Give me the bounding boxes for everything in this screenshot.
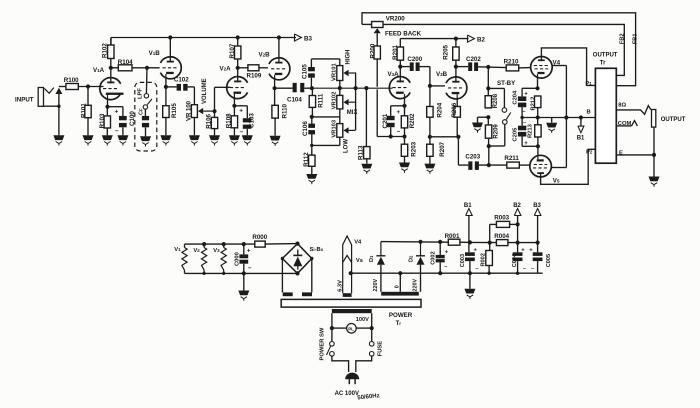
wire jack sleeve lead bbox=[653, 127, 655, 155]
capacitor C205 bbox=[521, 118, 523, 126]
svg-text:8Ω: 8Ω bbox=[618, 103, 626, 109]
svg-text:220V: 220V bbox=[413, 279, 419, 292]
wire low row bbox=[312, 144, 340, 146]
wire C102 to VR100 bbox=[188, 86, 195, 88]
resistor R108 bbox=[233, 106, 235, 116]
resistor R206 bbox=[454, 107, 460, 118]
ground R113 bbox=[361, 164, 372, 169]
svg-text:R213: R213 bbox=[528, 123, 534, 138]
svg-text:R000: R000 bbox=[252, 234, 267, 241]
node R002 top bbox=[488, 241, 492, 245]
wire R205 to rail bbox=[455, 39, 457, 47]
wire C204 bottom bbox=[521, 107, 523, 117]
resistor R201 bbox=[399, 39, 401, 47]
tube V3A bbox=[389, 77, 410, 99]
wire V1A cathode bbox=[107, 99, 109, 107]
tube V5 bbox=[530, 155, 552, 177]
potentiometer VR101 bbox=[337, 66, 343, 81]
wire node A to C105 bbox=[310, 78, 312, 89]
ground CF bbox=[140, 136, 151, 141]
wire C004 bottom bbox=[517, 261, 519, 273]
tube V3B bbox=[446, 77, 467, 99]
potentiometer VR200 bbox=[372, 22, 383, 28]
svg-text:PL: PL bbox=[348, 327, 354, 332]
svg-text:HIGH: HIGH bbox=[345, 50, 351, 65]
input jack J1 bbox=[38, 88, 43, 107]
node PL left bbox=[330, 326, 334, 330]
svg-text:R202: R202 bbox=[409, 113, 416, 128]
wire jack tip to R100 bbox=[59, 86, 66, 88]
power transformer core bbox=[281, 299, 421, 307]
svg-text:C201: C201 bbox=[382, 113, 389, 128]
resistor R109 bbox=[248, 65, 259, 71]
resistor R104 bbox=[118, 65, 132, 71]
wire C005 bottom bbox=[537, 261, 539, 273]
wire cathode to C102 bbox=[166, 86, 177, 88]
svg-text:V4: V4 bbox=[354, 240, 362, 246]
node B1 bottom bbox=[468, 240, 472, 244]
winding 6.3V left bar bbox=[283, 292, 293, 296]
svg-text:C002: C002 bbox=[430, 251, 436, 264]
svg-text:VR101: VR101 bbox=[332, 62, 338, 81]
svg-text:R206: R206 bbox=[451, 102, 458, 117]
resistor R101 bbox=[85, 105, 91, 117]
wire R105 to ground bbox=[165, 118, 167, 136]
svg-text:C104: C104 bbox=[287, 96, 302, 103]
svg-text:–: – bbox=[531, 266, 534, 272]
wire B3 rail bbox=[111, 37, 296, 39]
wire 8ohm tap bbox=[616, 106, 651, 115]
node LPF tap bbox=[145, 66, 149, 70]
svg-text:–: – bbox=[115, 127, 119, 134]
resistor R210 bbox=[506, 65, 519, 71]
resistor R212 bbox=[535, 96, 541, 108]
svg-text:–: – bbox=[523, 266, 526, 272]
svg-text:MIX: MIX bbox=[347, 110, 358, 116]
wire COM tap bbox=[616, 125, 631, 127]
resistor R004 bbox=[496, 240, 508, 246]
wire to C202 bbox=[456, 66, 468, 68]
resistor R200 bbox=[374, 46, 380, 59]
node R107 on B3 rail bbox=[236, 35, 240, 39]
node C203 junction bbox=[487, 163, 491, 167]
wire V4 cathode bbox=[537, 78, 539, 88]
resistor R207 bbox=[429, 137, 431, 144]
wire R004 to B3 bbox=[508, 242, 538, 244]
svg-text:+: + bbox=[397, 109, 401, 116]
switch ST-BY lever bbox=[506, 112, 511, 119]
svg-text:Tr: Tr bbox=[600, 61, 606, 67]
resistor R105 bbox=[165, 87, 167, 106]
resistor R204 bbox=[427, 107, 433, 118]
wire bridge AC left bbox=[281, 259, 283, 293]
node VR101 bottom bbox=[338, 86, 342, 90]
wire C000 bottom bbox=[243, 264, 245, 274]
svg-text:INPUT: INPUT bbox=[15, 97, 34, 104]
switch ST-BY upper contact bbox=[502, 108, 507, 113]
wire V3B plate bbox=[455, 60, 457, 77]
wire R001 to B1 bbox=[460, 241, 470, 243]
svg-text:–: – bbox=[240, 128, 244, 135]
wire R000 to bridge bbox=[265, 243, 297, 246]
svg-text:LOW: LOW bbox=[343, 139, 349, 153]
svg-text:B: B bbox=[587, 109, 591, 115]
wire R108 to ground bbox=[233, 128, 235, 136]
wire R209 bottom bbox=[488, 138, 490, 146]
wire C202 to R210 bbox=[478, 66, 506, 69]
wire wiper to V2A grid bbox=[214, 87, 216, 111]
switch POWER upper contact bbox=[330, 342, 335, 347]
svg-text:V5: V5 bbox=[553, 177, 560, 184]
wire V5 plate to P2 bbox=[541, 149, 596, 184]
potentiometer VR100 bbox=[191, 105, 197, 118]
svg-text:LPF: LPF bbox=[138, 88, 144, 99]
wire C103 to ground bbox=[246, 129, 248, 136]
svg-text:R004: R004 bbox=[494, 233, 509, 240]
wire C203 to R211 bbox=[479, 164, 507, 166]
wire R204 bottom bbox=[429, 117, 431, 137]
wire R102 to B3 rail bbox=[110, 38, 112, 46]
svg-text:R208: R208 bbox=[493, 93, 499, 108]
output jack bbox=[652, 110, 656, 128]
wire V2A plate bbox=[237, 59, 239, 77]
ground R105 bbox=[160, 135, 171, 140]
switch ST-BY lower contact bbox=[503, 120, 508, 125]
node B2 R003 bbox=[516, 222, 520, 226]
switch LPF lower contact bbox=[143, 105, 147, 109]
svg-text:OUTPUT: OUTPUT bbox=[661, 117, 686, 123]
node V2 heater bottom bbox=[203, 272, 206, 275]
svg-text:R106: R106 bbox=[206, 113, 213, 128]
capacitor C002 bbox=[439, 242, 441, 255]
wire jack sleeve bbox=[44, 105, 59, 107]
svg-text:B1: B1 bbox=[577, 135, 585, 141]
wire R002 bottom bbox=[488, 266, 490, 274]
svg-text:POWER SW: POWER SW bbox=[320, 327, 326, 360]
capacitor C103 bbox=[243, 118, 252, 122]
switch LPF lever bbox=[147, 99, 152, 105]
svg-text:C005: C005 bbox=[546, 254, 552, 267]
winding 6.3V right bar bbox=[302, 292, 312, 296]
wire R104 to V1B grid bbox=[132, 67, 160, 69]
svg-text:C105: C105 bbox=[302, 64, 309, 79]
output transformer T1 bbox=[595, 68, 616, 163]
wire stby branch to switch bbox=[488, 87, 504, 89]
ground R108 bbox=[229, 135, 240, 140]
svg-text:B3: B3 bbox=[533, 203, 541, 209]
resistor R202 bbox=[404, 106, 406, 116]
node V1B plate on B3 rail bbox=[168, 35, 172, 39]
wire mains right bbox=[356, 356, 372, 372]
svg-text:–: – bbox=[475, 266, 478, 272]
capacitor C102 bbox=[177, 84, 181, 91]
wire V2B cathode bbox=[274, 80, 276, 88]
tube V4 bbox=[531, 57, 553, 79]
node C203 junction upper bbox=[487, 144, 491, 148]
svg-text:ST-BY: ST-BY bbox=[497, 80, 516, 87]
wire V3B cathode lead bbox=[456, 99, 458, 107]
svg-text:C000: C000 bbox=[234, 252, 240, 266]
wire R112 to ground bbox=[311, 166, 313, 174]
wire mains left bbox=[332, 356, 349, 372]
wire cathode to C103 bbox=[234, 105, 247, 107]
wire V1B plate to rail bbox=[169, 38, 171, 57]
svg-text:C202: C202 bbox=[466, 56, 481, 63]
wire R211 to V5 grid bbox=[519, 164, 530, 166]
ground R101 bbox=[83, 135, 94, 140]
resistor R112 bbox=[311, 145, 313, 155]
wire heater bottom rail bbox=[185, 272, 298, 274]
wire C100 to ground bbox=[122, 127, 124, 135]
capacitor C104 bbox=[293, 83, 297, 92]
wire B rail bbox=[470, 241, 497, 243]
wire V1A plate to R102 bbox=[110, 59, 112, 78]
wire R110 to ground bbox=[274, 118, 276, 136]
svg-text:R001: R001 bbox=[445, 233, 460, 240]
svg-text:R102: R102 bbox=[101, 43, 108, 58]
heater V1 bbox=[184, 244, 186, 247]
node volume wiper bbox=[212, 109, 216, 113]
svg-text:VR103: VR103 bbox=[332, 119, 338, 138]
node HV center tap bbox=[398, 271, 402, 275]
svg-text:V1B: V1B bbox=[149, 50, 161, 57]
capacitor C005 bbox=[533, 252, 543, 256]
svg-text:R204: R204 bbox=[437, 102, 444, 117]
svg-text:B1: B1 bbox=[464, 203, 472, 209]
svg-text:0: 0 bbox=[394, 285, 400, 288]
capacitor C106 bbox=[311, 117, 313, 124]
svg-text:AC 100V: AC 100V bbox=[335, 391, 359, 397]
wire VR102 bottom bbox=[339, 109, 341, 117]
wire E ground stub bbox=[653, 155, 655, 177]
wire mix row bbox=[312, 116, 340, 118]
wire V4 screen bbox=[552, 65, 566, 67]
svg-text:R201: R201 bbox=[392, 44, 399, 59]
svg-text:R112: R112 bbox=[303, 152, 310, 167]
wire E tap bbox=[616, 154, 654, 156]
pilot lamp PL bbox=[332, 327, 347, 329]
resistor R103 bbox=[106, 107, 108, 116]
resistor R203 bbox=[404, 137, 406, 145]
wire bridge AC right bbox=[311, 259, 313, 293]
wire grid node to V3B bbox=[430, 85, 445, 87]
potentiometer VR103 bbox=[339, 117, 341, 124]
svg-text:C205: C205 bbox=[512, 127, 518, 142]
ground ST-BY bbox=[472, 123, 483, 128]
node wiper bus on row bbox=[354, 86, 358, 90]
capacitor C004 bbox=[513, 252, 523, 256]
wire C003 bottom bbox=[469, 261, 471, 273]
wire C002 bottom bbox=[439, 262, 441, 273]
resistor R003 bbox=[490, 223, 497, 225]
svg-text:C204: C204 bbox=[512, 90, 518, 105]
diode D2 bbox=[420, 242, 422, 256]
svg-text:VOLUME: VOLUME bbox=[202, 78, 208, 104]
capacitor C105 bbox=[308, 67, 315, 71]
svg-text:R003: R003 bbox=[494, 215, 509, 222]
wire plate node to R109 bbox=[238, 67, 248, 69]
capacitor C202 bbox=[468, 62, 472, 71]
wire R207 to ground bbox=[429, 156, 431, 163]
svg-text:FEED BACK: FEED BACK bbox=[385, 31, 422, 38]
ground VR100 bbox=[189, 135, 200, 140]
wire R210 to V4 grid bbox=[519, 67, 531, 69]
wire LPF tap lead bbox=[145, 68, 148, 94]
svg-text:V2B: V2B bbox=[259, 52, 271, 59]
wire CF to ground bbox=[145, 127, 147, 136]
ground mid row bbox=[546, 123, 557, 128]
svg-text:+: + bbox=[239, 107, 243, 114]
svg-text:C004: C004 bbox=[512, 253, 518, 267]
wire HV center tap bbox=[399, 273, 401, 292]
wire cathode to C204 bbox=[522, 87, 537, 89]
node bridge minus bbox=[295, 271, 299, 275]
node B1 arrow bbox=[578, 126, 584, 133]
wire stby lower lead bbox=[504, 124, 506, 146]
svg-text:–: – bbox=[523, 120, 526, 126]
svg-text:VR 100: VR 100 bbox=[187, 100, 193, 121]
svg-text:R207: R207 bbox=[439, 141, 446, 156]
svg-text:100V: 100V bbox=[356, 317, 369, 323]
svg-text:R107: R107 bbox=[229, 43, 236, 58]
wire feedback inner bbox=[383, 24, 624, 75]
node B1 tap bbox=[579, 115, 583, 119]
heater riser V4 V5 bbox=[343, 236, 352, 293]
ground R207 bbox=[424, 164, 435, 169]
wire C201 bottom bbox=[390, 127, 392, 136]
node V3 heater bottom bbox=[222, 272, 225, 275]
wire V3A cathode bottom row bbox=[377, 136, 404, 138]
node B2 rail bbox=[516, 241, 520, 245]
wire R101 to ground bbox=[87, 118, 89, 136]
wire D2 anode bbox=[420, 265, 422, 292]
svg-text:R212: R212 bbox=[530, 97, 536, 111]
wire primary right bbox=[371, 313, 373, 341]
resistor R102 bbox=[108, 45, 114, 59]
wire psu ground stub bbox=[469, 273, 471, 289]
ground R110 bbox=[270, 136, 281, 141]
ground R103 bbox=[102, 135, 113, 140]
capacitor CF bbox=[142, 116, 149, 120]
svg-text:V3B: V3B bbox=[436, 71, 448, 78]
node PL right bbox=[370, 326, 374, 330]
svg-text:C102: C102 bbox=[174, 76, 189, 83]
svg-text:V2A: V2A bbox=[220, 66, 232, 73]
node B2 arrow psu bbox=[514, 209, 521, 216]
resistor R208 bbox=[485, 96, 491, 108]
svg-text:+: + bbox=[529, 247, 533, 253]
wire C104 to node A bbox=[304, 87, 312, 89]
wire tone row bbox=[312, 87, 393, 89]
tube V2A bbox=[227, 77, 248, 99]
wire C200 to V3B grid node bbox=[420, 66, 430, 68]
svg-text:R200: R200 bbox=[369, 43, 376, 58]
bridge diode symbol bbox=[297, 250, 299, 257]
wire cathode mid row bbox=[522, 117, 595, 119]
capacitor C000 bbox=[243, 244, 245, 254]
switch LPF upper contact bbox=[144, 94, 148, 98]
node V3 heater bbox=[222, 242, 226, 246]
resistor R209 bbox=[487, 117, 489, 125]
node B2 bbox=[468, 35, 475, 42]
node R109 tap bbox=[236, 66, 240, 70]
wire cathode to C201 bbox=[391, 105, 405, 107]
svg-text:R111: R111 bbox=[318, 93, 325, 108]
wire cathode to C104 bbox=[275, 87, 293, 89]
svg-text:R105: R105 bbox=[171, 103, 178, 118]
wire R213 bottom bbox=[537, 137, 539, 146]
node heater riser tap bbox=[349, 271, 353, 275]
input jack tip contact bbox=[55, 88, 62, 94]
node R101 tap bbox=[86, 84, 90, 88]
svg-text:R113: R113 bbox=[357, 145, 364, 160]
svg-text:V1A: V1A bbox=[93, 67, 105, 74]
wire psu top rail bbox=[381, 241, 448, 244]
svg-text:+: + bbox=[524, 91, 528, 97]
node C002 top bbox=[438, 240, 442, 244]
wire B1 stub bbox=[580, 118, 582, 126]
svg-text:R103: R103 bbox=[99, 113, 106, 128]
node V3B cathode row left bbox=[428, 135, 432, 139]
wire B3 spine bbox=[537, 216, 539, 253]
svg-text:OUTPUT: OUTPUT bbox=[593, 53, 618, 59]
ground R106 bbox=[209, 135, 220, 140]
wire C205 bottom bbox=[521, 137, 523, 147]
svg-text:R203: R203 bbox=[411, 141, 418, 156]
switch POWER lever bbox=[327, 346, 331, 355]
svg-text:R210: R210 bbox=[504, 58, 519, 65]
wire V4 plate to P1 bbox=[541, 48, 595, 86]
wire R201 to V3A plate bbox=[399, 60, 401, 77]
wire to C200 bbox=[400, 66, 409, 68]
resistor R211 bbox=[507, 162, 520, 168]
wire V2A cathode bbox=[233, 98, 235, 106]
capacitor C201 bbox=[387, 116, 395, 120]
tube V1B bbox=[160, 57, 181, 79]
heater V3 bbox=[223, 244, 225, 247]
ground C100 bbox=[117, 135, 128, 140]
wire wiper bus bbox=[355, 73, 357, 131]
mains plug bbox=[345, 373, 359, 380]
ground R203 bbox=[399, 163, 410, 168]
wire R200 to cathode net bbox=[376, 59, 378, 87]
resistor R213 bbox=[537, 118, 539, 125]
node V3B grid bbox=[428, 84, 432, 88]
ground C103 bbox=[242, 135, 253, 140]
wire D1 anode bbox=[380, 265, 382, 292]
node R208 bottom bbox=[486, 115, 490, 119]
wire R113 to ground bbox=[366, 159, 368, 164]
svg-text:R109: R109 bbox=[247, 72, 262, 79]
wire jack ground lead bbox=[58, 106, 60, 135]
resistor R000 bbox=[255, 241, 265, 247]
ground output bbox=[649, 177, 660, 182]
svg-text:FB1: FB1 bbox=[633, 34, 639, 45]
wire R100 to V1A grid bbox=[78, 86, 103, 88]
wire V2B plate to rail bbox=[278, 38, 280, 58]
capacitor C100 bbox=[119, 116, 127, 120]
wire R109 to V2B grid bbox=[259, 67, 268, 69]
svg-text:R211: R211 bbox=[504, 155, 519, 162]
resistor R110 bbox=[274, 88, 276, 105]
wire V5 screen bbox=[551, 167, 566, 169]
node stby branch bbox=[486, 86, 490, 90]
svg-text:–: – bbox=[397, 128, 401, 135]
wire mid row ground stub bbox=[551, 118, 553, 123]
wire stby ground stub bbox=[478, 116, 489, 118]
diode D1 bbox=[380, 242, 382, 256]
wire C105 top bbox=[310, 59, 312, 67]
